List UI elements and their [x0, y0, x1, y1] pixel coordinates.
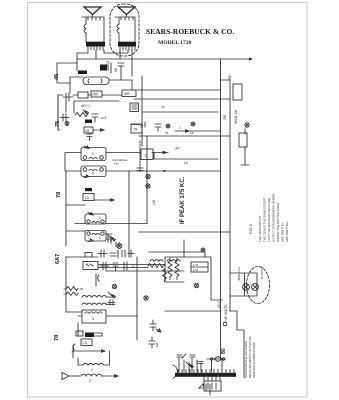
wire: left rail upper	[57, 63, 132, 93]
svg-text:SEARS-ROEBUCK & CO.: SEARS-ROEBUCK & CO.	[146, 27, 234, 36]
rectifier filament line with plug symbol	[207, 358, 226, 360]
resistor R7 zigzag	[148, 264, 166, 268]
svg-text:250: 250	[223, 114, 227, 120]
wire: top bus line with arrow	[77, 58, 250, 60]
svg-text:15: 15	[85, 196, 89, 200]
note: resistance measurements (rotated text right of transformer)	[244, 336, 256, 378]
box 15 left of row	[131, 124, 142, 133]
wire: -45 V line	[165, 310, 221, 312]
svg-text:2: 2	[92, 152, 94, 156]
IF transformer T1 box	[81, 146, 106, 161]
svg-text:LS: LS	[83, 341, 88, 345]
svg-text:+45 VOLTS: +45 VOLTS	[224, 304, 228, 322]
capacitor row at 6A7 plate	[100, 262, 127, 271]
label 1MEG	[100, 65, 107, 71]
svg-text:FIG 5: FIG 5	[248, 223, 253, 234]
wire: center column verticals	[129, 136, 147, 340]
wire: around T2	[66, 171, 147, 246]
capacitor C3	[60, 114, 69, 121]
trimmer marks osc	[108, 300, 115, 305]
svg-text:1: 1	[99, 236, 101, 240]
svg-text:250: 250	[92, 93, 98, 97]
resistor R8 vertical zigzag	[163, 269, 167, 282]
capacitor marks above transformer	[177, 354, 203, 364]
transformer secondary windings	[204, 377, 220, 381]
mixer row caps	[85, 253, 92, 258]
resistor R6 (dark)	[85, 188, 92, 191]
svg-text:ARE OMITTED.: ARE OMITTED.	[285, 221, 289, 242]
wire: y252 line	[149, 252, 205, 257]
svg-text:InterCalibrate: InterCalibrate	[112, 158, 128, 162]
resistor R4 box AF	[122, 90, 136, 97]
wire: transformer risers	[179, 358, 222, 372]
svg-text:1: 1	[179, 126, 181, 130]
capacitor C4 w/ label	[92, 114, 98, 122]
svg-text:WIRING THE DOTTED LINES: WIRING THE DOTTED LINES	[276, 203, 280, 242]
capacitor C5	[96, 274, 99, 286]
svg-text:78: 78	[56, 192, 62, 198]
potentiometer VOLUME (zigzag w/ arrow)	[75, 113, 88, 117]
svg-text:15: 15	[85, 129, 89, 133]
resistor R11 vertical box	[239, 133, 247, 147]
tube V1 (45 output tube) envelope with cone	[82, 7, 105, 50]
resistor R2 box with value	[78, 92, 88, 98]
wire: tube sockets down to top bus	[77, 50, 132, 76]
wire: right descend to transformer	[237, 322, 244, 378]
wire: left rail mid	[58, 95, 66, 130]
wire: row y95 connections	[73, 76, 221, 146]
svg-text:1: 1	[99, 216, 101, 220]
svg-text:4 kc: 4 kc	[114, 162, 119, 166]
field coil circle	[243, 284, 250, 291]
svg-text:450Ω FLD: 450Ω FLD	[237, 266, 241, 281]
capacitor with arrow lower	[150, 320, 156, 331]
wire: mid horizontal y112	[142, 111, 218, 113]
svg-text:3: 3	[92, 317, 94, 321]
IF transformer T1 secondary box	[81, 166, 106, 178]
svg-text:ARE OMITTED.: ARE OMITTED.	[281, 221, 285, 242]
power transformer primary (hatched bar)	[175, 370, 236, 377]
speaker assembly (dashed oval)	[237, 266, 270, 303]
wire: y100 y109 lines	[134, 98, 230, 100]
wire: 6A7 coil outputs	[150, 260, 180, 261]
oscillator coil L1	[82, 296, 106, 297]
svg-text:MODEL 1720: MODEL 1720	[158, 40, 192, 46]
capacitor near 78 output	[149, 337, 155, 348]
svg-text:350: 350	[124, 92, 130, 96]
svg-text:THE ITEM IS THE SAME EXCEPT: THE ITEM IS THE SAME EXCEPT	[263, 197, 267, 242]
resistor R5 (dark)	[85, 120, 92, 124]
B+ bus vertical 2	[221, 80, 231, 311]
svg-text:15k: 15k	[109, 239, 113, 244]
resistor box 1 MEG / 2 MEG	[191, 262, 208, 272]
wire: mid horizontal y171	[106, 170, 221, 172]
svg-text:2: 2	[145, 154, 147, 158]
svg-text:SERVICE ELABORATIONS: SERVICE ELABORATIONS	[252, 342, 256, 378]
svg-text:2: 2	[92, 172, 94, 176]
svg-text:45: 45	[54, 74, 60, 80]
resistor R3 box 350 ohm	[91, 91, 102, 97]
coupling box 15 (2nd) w/ arrow	[83, 194, 94, 201]
svg-text:OUTPUT: OUTPUT	[260, 267, 264, 280]
pilot lamp	[199, 384, 210, 395]
antenna symbol	[62, 373, 69, 380]
output trans circle	[252, 284, 259, 291]
antenna coil	[81, 374, 102, 376]
wire: around T1	[65, 153, 141, 172]
svg-text:THAT THE SPEAKER FIELD AND: THAT THE SPEAKER FIELD AND	[267, 198, 271, 242]
grid-cap circle a	[146, 174, 150, 178]
oscillator resistors	[66, 287, 78, 296]
padder trimmer	[112, 284, 116, 288]
svg-text:1x: 1x	[165, 131, 169, 135]
LS box	[81, 339, 92, 346]
svg-text:OUTPUT TRANSFORMERS WHERE: OUTPUT TRANSFORMERS WHERE	[272, 194, 276, 242]
wire: y159 line	[154, 153, 218, 160]
grid cap circle osc	[144, 296, 148, 300]
RF choke coil	[83, 363, 103, 365]
junction circle on y252	[201, 248, 205, 252]
wire: y101 audio line	[74, 101, 119, 113]
svg-text:80: 80	[221, 348, 227, 354]
dial / tuning condenser box	[83, 77, 109, 85]
FIG 5 note paragraph (rotated lines)	[258, 194, 289, 242]
svg-text:AF(~): AF(~)	[81, 104, 90, 108]
svg-text:78: 78	[54, 335, 60, 341]
resistor box mid-left	[130, 103, 139, 112]
grid cap circle 6A7	[194, 283, 198, 287]
tube V2 (dashed envelope) with cone	[110, 4, 139, 56]
svg-text:IF PEAK 175 KC.: IF PEAK 175 KC.	[180, 176, 186, 224]
wire: below L3	[78, 316, 137, 335]
svg-text:1d: 1d	[184, 161, 188, 165]
svg-text:1x: 1x	[190, 131, 194, 135]
svg-text:MA: MA	[155, 343, 159, 348]
capacitor C1	[118, 63, 124, 80]
svg-text:THE ITEM CIRCUIT: THE ITEM CIRCUIT	[258, 216, 262, 242]
grid cap circle on bus	[245, 123, 249, 127]
wire: arrow after det box	[152, 151, 168, 154]
wire: arrow line y351	[73, 345, 105, 358]
on-off switch arrow	[186, 362, 194, 368]
filament winding box	[204, 381, 221, 391]
wire: mid horizontal y136	[139, 135, 230, 137]
svg-text:1: 1	[91, 368, 93, 372]
wire: 6A7 row lines	[66, 257, 184, 312]
IF transformer T2 box	[85, 212, 106, 224]
filament curve	[173, 365, 177, 378]
wire: osc connections	[64, 289, 115, 312]
wire: left column risers	[57, 95, 59, 130]
RC unit box	[83, 262, 98, 270]
svg-text:1W: 1W	[152, 199, 156, 205]
capacitor marks y253	[122, 250, 134, 257]
svg-text:15: 15	[133, 128, 137, 132]
svg-text:6A7: 6A7	[55, 254, 61, 264]
resistor R10 (5M) box on bus	[233, 84, 242, 100]
IF transformer T2 secondary	[85, 231, 106, 242]
svg-text:5M: 5M	[228, 75, 232, 80]
resistor R1 (1 MEG grid)	[78, 71, 87, 75]
svg-text:2: 2	[89, 379, 91, 383]
B+ bus vertical 1	[220, 59, 222, 359]
svg-text:1x: 1x	[176, 146, 180, 150]
arrow on y171	[164, 170, 168, 173]
svg-text:25: 25	[140, 124, 144, 128]
svg-text:2 M: 2 M	[193, 268, 199, 272]
resistor R9 small box	[76, 331, 83, 336]
resistor R12/R13 vertical zigzags	[168, 258, 172, 280]
svg-text:15: 15	[131, 265, 135, 269]
svg-text:1x: 1x	[161, 105, 165, 109]
wire: misc right column components	[132, 122, 161, 131]
capacitor C2 pair	[63, 93, 73, 101]
svg-text:450Ω 1W: 450Ω 1W	[234, 109, 238, 124]
note: calibrate text	[112, 158, 128, 166]
oscillator coil L2	[82, 303, 106, 304]
wire: bus jog into speaker	[230, 273, 245, 296]
svg-text:w 2: w 2	[101, 116, 106, 120]
svg-text:1MEG: 1MEG	[106, 61, 110, 71]
svg-text:1 M: 1 M	[193, 263, 199, 267]
wire: mid horizontal y232	[139, 231, 230, 233]
antenna coil box L3	[82, 310, 106, 323]
wire: y257 line to bus	[165, 257, 222, 300]
capacitor cluster near dashed lead	[139, 141, 141, 172]
svg-text:.05: .05	[114, 68, 118, 73]
coupling box (det)	[141, 149, 153, 160]
svg-text:-45 V: -45 V	[217, 301, 221, 309]
coil with core (dark)	[85, 333, 94, 338]
trimmer capacitors cluster	[106, 234, 116, 242]
circle plus small (row y124)	[166, 124, 170, 128]
grid-cap circle b	[146, 184, 150, 188]
switch S-curve	[72, 344, 75, 352]
coupling box 15 with arrow	[84, 127, 93, 133]
